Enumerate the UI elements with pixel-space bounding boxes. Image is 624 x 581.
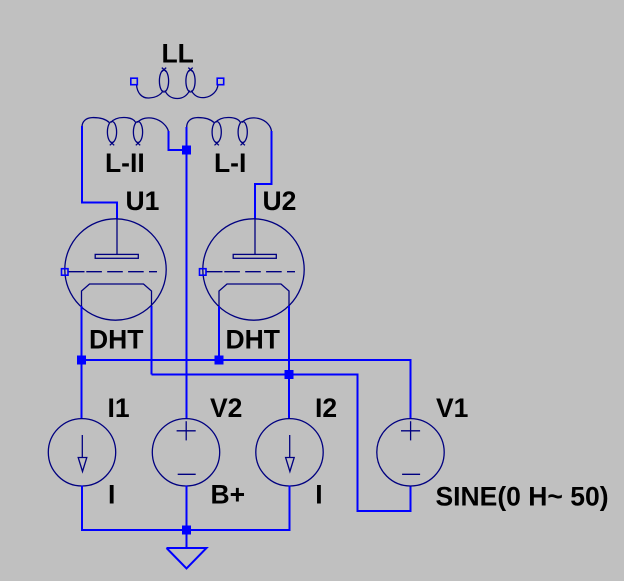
port square U1 grid xyxy=(62,269,69,276)
svg-text:DHT: DHT xyxy=(89,325,143,355)
wire U2 left filament leg down to net A xyxy=(218,306,220,360)
wire I1 bottom to ground rail xyxy=(82,486,290,531)
junction U2 right leg at net B xyxy=(285,370,294,379)
svg-text:I: I xyxy=(108,480,115,510)
wire U2 right filament leg down to I2 xyxy=(288,306,290,419)
svg-text:L-I: L-I xyxy=(214,148,246,178)
current source I2 xyxy=(256,419,323,486)
current source I1 xyxy=(48,419,115,486)
inductor L-II xyxy=(82,117,169,145)
svg-text:V2: V2 xyxy=(210,393,242,423)
triode U1 xyxy=(65,219,166,320)
port square LL right xyxy=(217,78,224,85)
svg-text:U1: U1 xyxy=(126,186,160,216)
port square U2 grid xyxy=(200,269,207,276)
inductor LL xyxy=(137,68,219,99)
svg-text:SINE(0 H~ 50): SINE(0 H~ 50) xyxy=(436,482,609,512)
svg-text:L-II: L-II xyxy=(105,148,145,178)
junction U1 left leg at net A xyxy=(77,356,86,365)
svg-text:I1: I1 xyxy=(108,393,130,423)
wire net B horizontal to V1 minus terminal xyxy=(152,375,411,512)
wire V2 bottom to ground rail xyxy=(186,486,188,549)
svg-text:U2: U2 xyxy=(263,186,297,216)
wire U1 left filament leg down to I1 xyxy=(81,306,83,419)
junction node N1 xyxy=(182,146,191,155)
svg-text:V1: V1 xyxy=(436,393,468,423)
wire U1 right filament leg down to net B xyxy=(151,306,153,375)
wire L-II left end to U1 plate xyxy=(82,126,117,220)
wire L-I right end to U2 plate xyxy=(255,131,272,220)
ground symbol xyxy=(167,548,207,569)
wire node N1 up to L-I left end xyxy=(186,127,188,150)
svg-text:DHT: DHT xyxy=(226,325,280,355)
svg-text:LL: LL xyxy=(162,39,194,69)
svg-text:I2: I2 xyxy=(315,393,337,423)
svg-text:I: I xyxy=(315,480,322,510)
inductor L-I xyxy=(187,117,272,145)
voltage source V2 xyxy=(152,419,219,486)
voltage source V1 xyxy=(377,419,444,486)
triode U2 xyxy=(203,219,304,320)
wire node N1 down to V2 plus terminal xyxy=(186,150,188,419)
junction ground node xyxy=(182,526,191,535)
wire L-II right end to node N1 xyxy=(169,131,187,150)
wire net A horizontal to V1 plus terminal xyxy=(82,360,411,419)
svg-text:B+: B+ xyxy=(211,480,246,510)
junction U2 left leg at net A xyxy=(215,356,224,365)
port square LL left xyxy=(131,78,138,85)
